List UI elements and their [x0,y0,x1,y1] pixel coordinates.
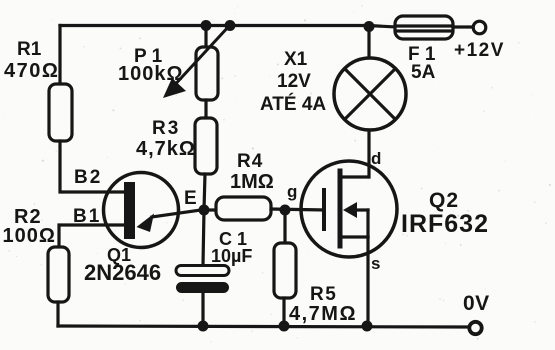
resistor R3 [195,118,217,174]
svg-text:R1: R1 [17,39,42,60]
wire lamp to drain [367,130,370,177]
wire lamp top feed [367,26,370,59]
svg-text:X1: X1 [284,49,308,70]
wire top to P1 [204,26,207,50]
svg-text:Q2: Q2 [429,189,459,212]
resistor R4 [216,197,271,220]
terminal 0V [469,322,481,334]
node E [199,205,210,216]
svg-text:100Ω: 100Ω [3,225,56,247]
resistor R2 [48,247,69,302]
svg-text:IRF632: IRF632 [401,210,489,238]
svg-text:R5: R5 [310,284,337,305]
terminal +12V [473,21,486,34]
svg-text:d: d [371,149,381,168]
resistor R1 [49,84,72,141]
svg-text:g: g [287,182,297,201]
svg-text:4,7kΩ: 4,7kΩ [136,138,196,160]
transistor Q2 internals [322,190,326,229]
wire left vertical to R1 [58,26,61,87]
wire B1 to R2 [59,225,126,249]
svg-text:470Ω: 470Ω [4,60,59,82]
wire source to bottom bus [366,237,369,326]
svg-text:100kΩ: 100kΩ [118,63,184,85]
potentiometer P1 wiper arrow [170,25,230,90]
wire node g down to R5 [283,210,286,244]
svg-text:12V: 12V [277,71,311,92]
node wiper top [225,20,236,31]
svg-text:B2: B2 [74,167,102,188]
svg-text:ATÉ 4A: ATÉ 4A [260,93,326,115]
svg-text:E: E [184,188,197,209]
svg-text:R4: R4 [237,151,263,172]
wire fuse to +12V terminal [453,25,471,28]
wire R4 to node g [271,209,324,210]
svg-text:0V: 0V [463,292,490,315]
svg-text:+12V: +12V [454,40,505,61]
node C1 bottom [198,321,209,332]
transistor Q1 body circle [104,173,179,248]
resistor R5 [274,243,296,298]
node lamp top [364,21,375,32]
capacitor C1 bottom plate [176,282,229,293]
wire R3 to node E [204,174,205,210]
transistor Q1 base bar [124,182,135,239]
fuse F1 [395,16,453,39]
svg-text:s: s [371,254,380,273]
node g [280,205,291,216]
svg-text:2N2646: 2N2646 [84,260,161,285]
wire node E to C1 [203,210,204,265]
emitter arrowhead Q1 [137,214,155,233]
wire emitter diagonal [152,210,204,218]
svg-text:1MΩ: 1MΩ [230,171,274,193]
capacitor C1 top plate [176,266,229,276]
svg-text:4,7MΩ: 4,7MΩ [289,303,357,325]
node R5 bottom [279,321,290,332]
svg-text:B1: B1 [73,206,101,227]
wire P1 to R3 [204,100,207,120]
wire bottom bus [58,326,467,327]
potentiometer P1 [196,47,218,100]
svg-text:5A: 5A [411,62,436,83]
node source bottom [362,321,373,332]
node P1 top [201,20,212,31]
lamp X1 [334,58,406,130]
wire R2 to bottom bus [56,302,59,326]
svg-text:10µF: 10µF [211,246,252,266]
wire R5 to bottom bus [282,298,285,326]
wire E to R4 [204,208,217,211]
wire top bus [60,26,396,28]
svg-text:R3: R3 [152,118,180,139]
wire C1 to bottom bus [201,292,204,326]
transistor Q2 body arrowhead [343,202,357,218]
transistor Q2 body circle [301,161,397,257]
wire R1 to B2 corner [60,141,126,192]
